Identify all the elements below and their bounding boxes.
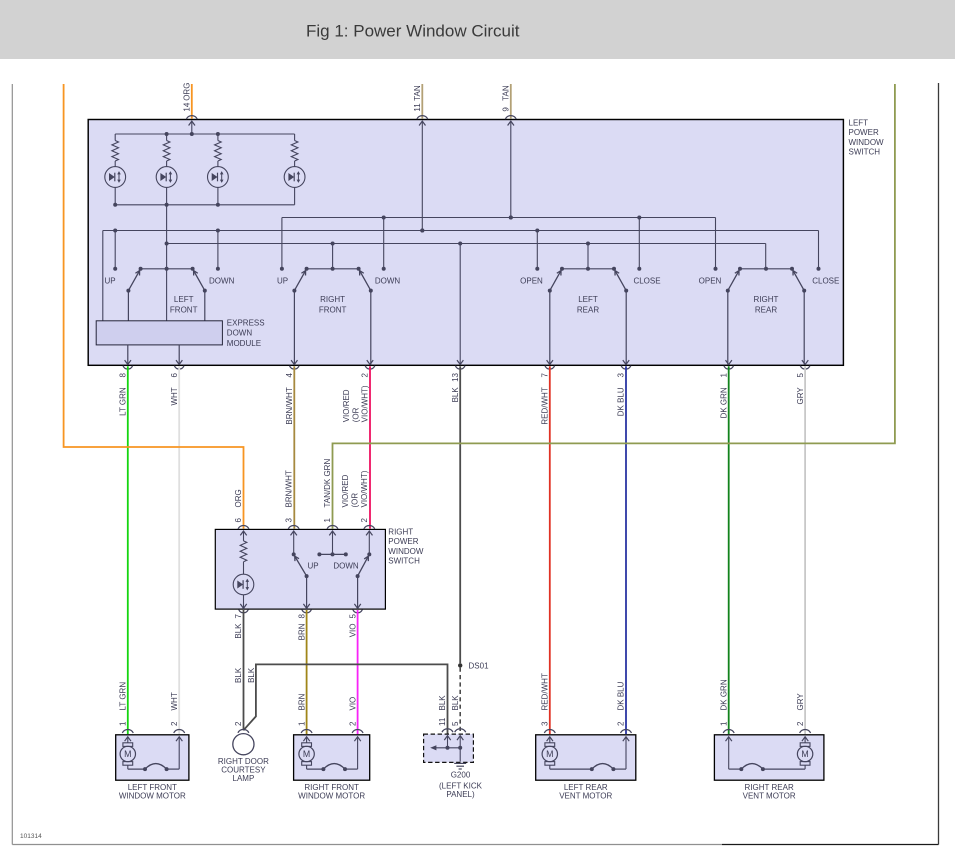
svg-text:M: M (546, 749, 553, 759)
svg-text:RIGHT: RIGHT (754, 295, 779, 304)
svg-text:RED/WHT: RED/WHT (541, 673, 550, 710)
svg-text:LAMP: LAMP (233, 774, 255, 783)
svg-text:8: 8 (297, 613, 306, 618)
svg-text:BRN: BRN (297, 623, 306, 640)
svg-text:WHT: WHT (170, 692, 179, 710)
svg-text:DOWN: DOWN (209, 277, 235, 286)
svg-text:4: 4 (285, 372, 294, 377)
svg-text:6: 6 (170, 372, 179, 377)
svg-text:2: 2 (170, 721, 179, 726)
svg-text:CLOSE: CLOSE (812, 277, 839, 286)
svg-text:GRY: GRY (796, 387, 805, 405)
svg-text:BLK: BLK (234, 667, 243, 683)
svg-text:13: 13 (451, 372, 460, 381)
svg-text:MODULE: MODULE (227, 339, 261, 348)
svg-text:LT GRN: LT GRN (119, 387, 128, 416)
svg-text:EXPRESS: EXPRESS (227, 318, 265, 327)
svg-text:TAN/DK GRN: TAN/DK GRN (323, 459, 332, 508)
svg-text:M: M (801, 749, 808, 759)
svg-text:SWITCH: SWITCH (388, 557, 420, 566)
svg-text:VIO/WHT): VIO/WHT) (360, 470, 369, 507)
svg-text:BRN: BRN (297, 693, 306, 710)
svg-text:PANEL): PANEL) (446, 790, 475, 799)
svg-text:VIO: VIO (348, 697, 357, 711)
svg-text:RIGHT: RIGHT (320, 295, 345, 304)
svg-text:CLOSE: CLOSE (633, 277, 660, 286)
svg-text:RED/WHT: RED/WHT (541, 387, 550, 424)
svg-text:1: 1 (719, 372, 728, 377)
svg-text:TAN: TAN (502, 85, 511, 101)
svg-text:WINDOW: WINDOW (849, 138, 885, 147)
svg-text:BLK: BLK (451, 387, 460, 403)
svg-text:Fig 1: Power Window Circuit: Fig 1: Power Window Circuit (306, 22, 520, 41)
svg-text:DOWN: DOWN (227, 329, 253, 338)
svg-text:REAR: REAR (755, 305, 777, 314)
svg-text:UP: UP (277, 277, 288, 286)
svg-text:(OR: (OR (351, 493, 360, 508)
svg-text:5: 5 (451, 721, 460, 726)
svg-text:BLK: BLK (438, 695, 447, 711)
svg-text:11: 11 (438, 717, 447, 726)
svg-text:REAR: REAR (577, 305, 599, 314)
svg-text:DK BLU: DK BLU (617, 387, 626, 416)
svg-text:BRN/WHT: BRN/WHT (285, 387, 294, 424)
svg-text:OPEN: OPEN (699, 277, 722, 286)
svg-text:7: 7 (541, 372, 550, 377)
svg-text:2: 2 (348, 721, 357, 726)
svg-text:1: 1 (323, 518, 332, 523)
svg-text:1: 1 (719, 721, 728, 726)
svg-text:RIGHT: RIGHT (388, 528, 413, 537)
svg-text:G200: G200 (451, 771, 471, 780)
svg-text:UP: UP (104, 277, 115, 286)
svg-text:ORG: ORG (234, 489, 243, 507)
svg-text:M: M (303, 749, 310, 759)
svg-text:TAN: TAN (413, 85, 422, 101)
svg-text:WHT: WHT (170, 387, 179, 405)
svg-text:5: 5 (348, 613, 357, 618)
svg-text:DOWN: DOWN (333, 562, 359, 571)
svg-text:BLK: BLK (451, 695, 460, 711)
svg-text:ORG: ORG (183, 83, 192, 101)
svg-text:14: 14 (183, 102, 192, 111)
svg-text:WINDOW: WINDOW (388, 547, 424, 556)
svg-text:2: 2 (234, 721, 243, 726)
svg-text:WINDOW MOTOR: WINDOW MOTOR (298, 792, 365, 801)
svg-text:2: 2 (617, 721, 626, 726)
svg-text:GRY: GRY (796, 693, 805, 711)
svg-text:DS01: DS01 (469, 661, 490, 670)
svg-text:POWER: POWER (849, 128, 879, 137)
svg-text:BLK: BLK (234, 623, 243, 639)
svg-text:1: 1 (119, 721, 128, 726)
svg-text:1: 1 (297, 721, 306, 726)
svg-text:UP: UP (307, 562, 318, 571)
svg-text:LT GRN: LT GRN (119, 682, 128, 711)
svg-text:(OR: (OR (351, 407, 360, 422)
svg-text:101314: 101314 (20, 833, 42, 840)
svg-text:VIO/WHT): VIO/WHT) (361, 385, 370, 422)
svg-text:11: 11 (413, 103, 422, 112)
svg-text:LEFT: LEFT (578, 295, 598, 304)
svg-text:M: M (124, 749, 131, 759)
svg-text:VIO/RED: VIO/RED (342, 389, 351, 422)
svg-text:7: 7 (234, 613, 243, 618)
svg-text:5: 5 (796, 372, 805, 377)
svg-text:2: 2 (360, 518, 369, 523)
svg-text:3: 3 (617, 372, 626, 377)
svg-text:OPEN: OPEN (520, 277, 543, 286)
svg-text:DK GRN: DK GRN (719, 387, 728, 418)
svg-text:BLK: BLK (247, 667, 256, 683)
svg-text:FRONT: FRONT (170, 305, 198, 314)
svg-text:3: 3 (284, 518, 293, 523)
svg-text:6: 6 (234, 518, 243, 523)
svg-text:VIO: VIO (348, 624, 357, 638)
svg-text:9: 9 (502, 107, 511, 112)
svg-text:DK BLU: DK BLU (617, 681, 626, 710)
svg-text:2: 2 (796, 721, 805, 726)
svg-text:DOWN: DOWN (375, 277, 401, 286)
svg-text:(LEFT KICK: (LEFT KICK (439, 781, 483, 790)
svg-text:VIO/RED: VIO/RED (341, 474, 350, 507)
svg-text:8: 8 (119, 372, 128, 377)
svg-text:POWER: POWER (388, 537, 418, 546)
svg-text:3: 3 (541, 721, 550, 726)
svg-text:LEFT: LEFT (174, 295, 194, 304)
svg-text:VENT MOTOR: VENT MOTOR (559, 792, 612, 801)
svg-text:VENT MOTOR: VENT MOTOR (743, 792, 796, 801)
svg-text:WINDOW MOTOR: WINDOW MOTOR (119, 792, 186, 801)
svg-text:FRONT: FRONT (319, 305, 347, 314)
svg-text:BRN/WHT: BRN/WHT (284, 470, 293, 507)
svg-text:LEFT: LEFT (849, 118, 869, 127)
svg-text:SWITCH: SWITCH (849, 148, 881, 157)
svg-text:2: 2 (361, 372, 370, 377)
svg-text:DK GRN: DK GRN (719, 679, 728, 710)
